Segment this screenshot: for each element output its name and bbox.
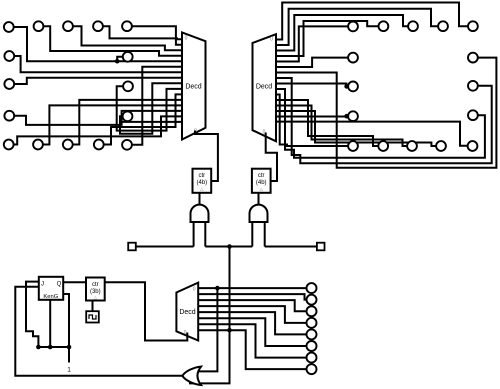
LED D2 (bottom column) bbox=[307, 295, 317, 305]
LED C3 (left ring) bbox=[63, 21, 73, 31]
wire B5 to U1 pin5 bbox=[132, 67, 182, 145]
LED B4 (left ring) bbox=[94, 140, 104, 150]
decoder U3 (bottom, 3-to-8, outputs east) bbox=[176, 283, 198, 341]
junction at L4' stub bbox=[344, 114, 349, 119]
LED R4' (right ring) bbox=[468, 110, 478, 120]
decoder U1 (left, 4-to-16, outputs west) bbox=[182, 32, 206, 139]
LED D6 (bottom column) bbox=[307, 341, 317, 351]
wire FF1 Qbar down bbox=[63, 294, 69, 363]
LED C1 (left ring) bbox=[4, 22, 14, 32]
wire C1 to U1 pin4 bbox=[13, 27, 182, 61]
wire U2 pin4 to C1' bbox=[276, 26, 348, 61]
junction U3 pin0 / OR input A bbox=[215, 286, 220, 291]
wire U3 pin1 to LED D2 bbox=[198, 294, 307, 300]
wire U2 pin8 to L3' bbox=[276, 84, 348, 87]
wire P1 to G1 bbox=[136, 246, 194, 248]
LED R2 (left ring) bbox=[123, 52, 133, 62]
svg-text:J: J bbox=[41, 282, 44, 288]
counter CTR3 (3b) bbox=[86, 278, 105, 301]
wire U2 pin5 to L2' bbox=[276, 58, 348, 67]
wire L2 to U1 pin6 bbox=[14, 56, 182, 72]
wire L4 to U1 pin13 bbox=[14, 111, 182, 125]
junction R2/pin4 bbox=[115, 59, 120, 64]
wire U2 pin2 to C3' bbox=[276, 15, 408, 51]
wire L3 to U1 pin7 bbox=[14, 78, 182, 84]
LED C2 (left ring) bbox=[34, 21, 44, 31]
wire U2 pin3 to C2' bbox=[276, 21, 379, 56]
svg-text:0: 0 bbox=[185, 36, 188, 42]
wire C4 to U1 pin0 bbox=[103, 26, 182, 39]
LED B5 (left ring) bbox=[122, 140, 132, 150]
wire U2 pin11 to B2' bbox=[276, 100, 379, 146]
LED D5 (bottom column) bbox=[307, 329, 317, 339]
svg-text:Decd: Decd bbox=[185, 84, 201, 91]
svg-text:0: 0 bbox=[270, 37, 273, 43]
LED L4' (right ring) bbox=[348, 111, 358, 121]
wire R4 to U1 pin8 bbox=[120, 83, 182, 133]
wire U3 pin6 to LED D7 bbox=[198, 324, 307, 357]
junction at L3' stub bbox=[344, 84, 349, 89]
LED B1 (left ring) bbox=[4, 140, 14, 150]
svg-text:△: △ bbox=[94, 295, 98, 300]
wire G2 input A bbox=[251, 222, 253, 247]
wire U1 pin15 lane bbox=[122, 121, 182, 123]
LED L4 (left ring) bbox=[4, 111, 14, 121]
wire U3 pin7 to LED D8 bbox=[198, 330, 307, 369]
LED B2' (right ring) bbox=[378, 141, 388, 151]
wire C3 to U1 pin2 bbox=[73, 26, 182, 50]
LED C1' (right ring) bbox=[348, 22, 358, 32]
LED C2' (right ring) bbox=[379, 21, 389, 31]
and-gate G1 bbox=[191, 205, 209, 222]
wire R2 join pin4 lane bbox=[117, 57, 123, 61]
junction at LED D5 bbox=[305, 332, 310, 337]
wire junction down to OR input B bbox=[189, 247, 230, 384]
wire FF1 clk down bbox=[49, 300, 51, 347]
svg-text:△: △ bbox=[200, 187, 204, 192]
wire G1 input A bbox=[193, 222, 195, 247]
wire B4 to U1 pin10 bbox=[103, 94, 182, 144]
LED D8 (bottom column) bbox=[307, 364, 317, 374]
wire C2 to U1 pin3 bbox=[43, 26, 182, 56]
wire U2 pin12 to B3' bbox=[276, 106, 407, 147]
wire AND2 out to CTR2 clk bbox=[258, 193, 260, 205]
svg-text:Q: Q bbox=[57, 282, 62, 288]
wire U3 pin3 to LED D4 bbox=[198, 306, 307, 323]
decoder U2 (right, 4-to-16, outputs east) bbox=[253, 34, 277, 141]
wire CTR3 Q to U3 select bbox=[105, 282, 188, 340]
svg-text:ctr: ctr bbox=[258, 173, 265, 179]
svg-text:ctr: ctr bbox=[198, 173, 205, 179]
LED D3 (bottom column) bbox=[307, 306, 317, 316]
LED B4' (right ring) bbox=[436, 141, 446, 151]
counter CTR2 (4b) bbox=[252, 169, 271, 193]
LED B3' (right ring) bbox=[407, 141, 417, 151]
wire CLK1 to CTR3 clk bbox=[92, 301, 94, 312]
LED B5' (right ring) bbox=[468, 141, 478, 151]
svg-text:(4b): (4b) bbox=[256, 180, 267, 186]
LED R3 (left ring) bbox=[123, 81, 133, 91]
junction bus/feedback bbox=[227, 244, 232, 249]
input pin P2 (right square) bbox=[317, 243, 325, 251]
wire U2 pin6 to R2' bbox=[276, 58, 496, 168]
svg-text:0: 0 bbox=[193, 287, 196, 293]
wire U2 pin9 to R4' bbox=[276, 89, 485, 158]
wire U2 pin14 to L4' bbox=[276, 115, 348, 117]
LED C4' (right ring) bbox=[438, 21, 448, 31]
wire bottom junction lane bbox=[38, 346, 69, 348]
wire U2 pin1 to C4' bbox=[276, 9, 438, 45]
wire B2 to U1 pin12 bbox=[43, 105, 182, 144]
svg-text:(4b): (4b) bbox=[196, 180, 207, 186]
LED C5' (right ring) bbox=[468, 21, 478, 31]
LED B3 (left ring) bbox=[63, 140, 73, 150]
clock CLK1 bbox=[86, 311, 99, 322]
svg-text:KenG: KenG bbox=[43, 294, 58, 300]
wire OR output feedback to FF1 K bbox=[15, 287, 182, 376]
LED C3' (right ring) bbox=[408, 21, 418, 31]
LED L3 (left ring) bbox=[4, 79, 14, 89]
LED B2 (left ring) bbox=[33, 140, 43, 150]
LED D7 (bottom column) bbox=[307, 353, 317, 363]
wire G2 input B bbox=[264, 222, 266, 247]
wire U3 pin5 to LED D6 bbox=[198, 318, 307, 346]
svg-text:△: △ bbox=[259, 187, 263, 192]
svg-text:ctr: ctr bbox=[92, 282, 99, 288]
LED R4 (left ring) bbox=[123, 111, 133, 121]
wire CTR1 Q to U1 select bbox=[195, 131, 218, 182]
LED L2' (right ring) bbox=[348, 53, 358, 63]
wire R3 to U1 pin9 bbox=[117, 86, 182, 130]
LED D1 (bottom column) bbox=[307, 283, 317, 293]
wire B3 to U1 pin11 bbox=[72, 100, 182, 145]
wire G1.B to G2.A bus bbox=[205, 246, 252, 248]
wire U2 pin7 to R3' bbox=[276, 78, 492, 163]
wire U2 pin15 to B5' corner bbox=[276, 122, 468, 146]
wire U2 pin10 to B1' bbox=[276, 95, 348, 147]
wire B1 to U1 pin14 bbox=[13, 116, 182, 144]
wire AND1 out to CTR1 clk bbox=[199, 193, 201, 205]
wire U3 pin0 to LED D1 bbox=[198, 287, 307, 289]
or-gate G3 bbox=[182, 367, 201, 385]
junction constant lane bbox=[67, 345, 72, 350]
LED R3' (right ring) bbox=[468, 81, 478, 91]
LED C5 (left ring) bbox=[122, 21, 132, 31]
svg-text:1: 1 bbox=[67, 367, 71, 374]
wire U3 pin4 to LED D5 bbox=[198, 312, 307, 334]
and-gate G2 bbox=[250, 205, 268, 222]
wire G2.B to P2 bbox=[265, 246, 317, 248]
wire C5 to U1 pin1 bbox=[132, 26, 182, 45]
wire CTR2 Q to U2 select bbox=[266, 133, 277, 182]
junction J lane bbox=[36, 345, 41, 350]
wire G1 input B bbox=[204, 222, 206, 247]
junction FF1 clk lane bbox=[48, 345, 53, 350]
LED D4 (bottom column) bbox=[307, 318, 317, 328]
LED R2' (right ring) bbox=[468, 53, 478, 63]
wire FF1 Q to CTR3 bbox=[63, 281, 86, 283]
wire U2 pin0 to C5' bbox=[276, 3, 468, 40]
LED B1' (right ring) bbox=[348, 141, 358, 151]
wire U2 pin13 to B4' bbox=[276, 111, 436, 146]
wire U3 pin2 to LED D3 bbox=[198, 300, 307, 311]
LED L2 (left ring) bbox=[4, 51, 14, 61]
junction at U3 pin7 bbox=[227, 328, 232, 333]
jk-flip-flop FF1 bbox=[39, 277, 63, 300]
wire U3 pin0 to OR input A bbox=[189, 288, 217, 371]
wire J input stair bbox=[26, 282, 39, 347]
counter CTR1 (4b) bbox=[193, 169, 212, 193]
svg-text:Decd: Decd bbox=[179, 309, 195, 316]
input pin P1 (left square) bbox=[128, 243, 136, 251]
svg-text:Decd: Decd bbox=[256, 84, 272, 91]
LED L3' (right ring) bbox=[348, 82, 358, 92]
LED C4 (left ring) bbox=[93, 21, 103, 31]
